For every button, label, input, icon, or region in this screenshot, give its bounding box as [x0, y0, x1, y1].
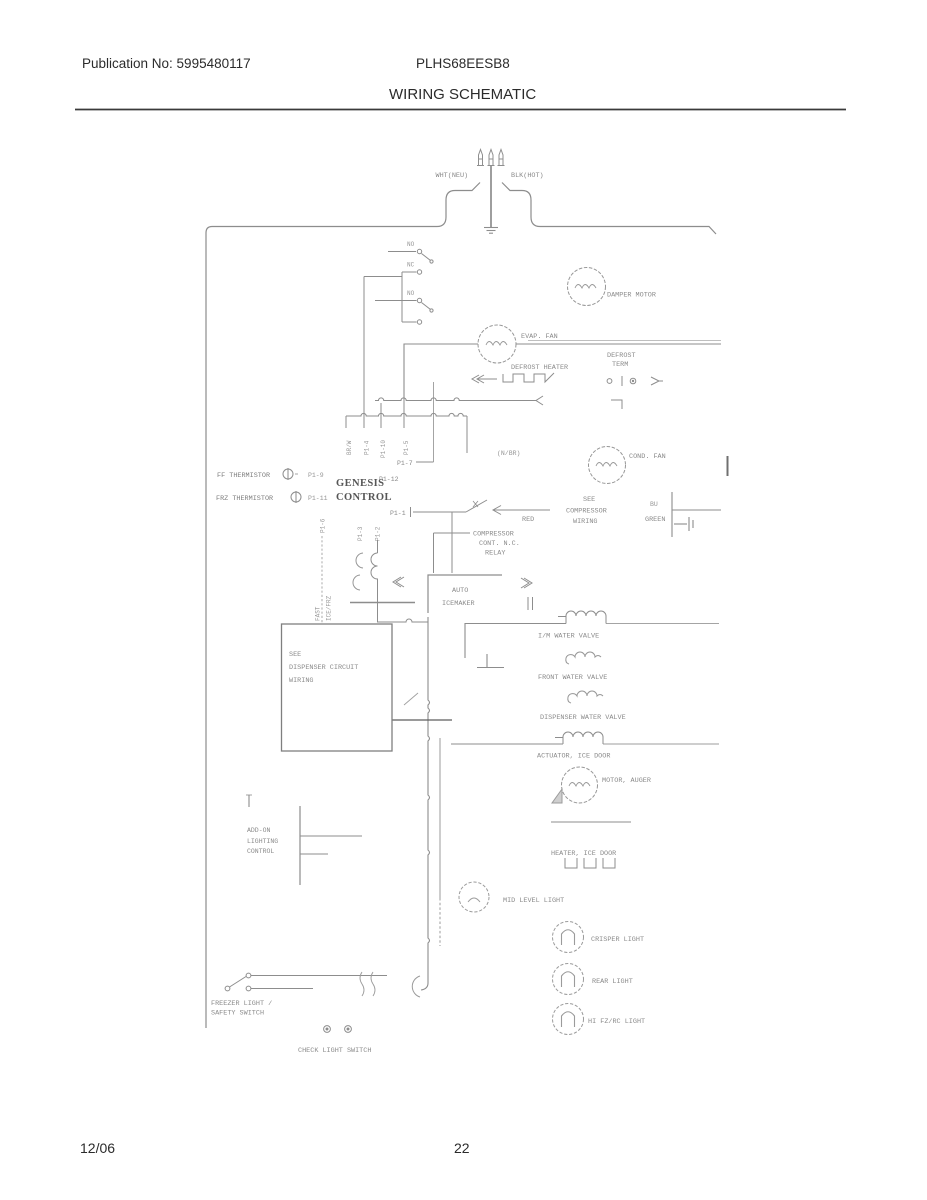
svg-text:ACTUATOR, ICE DOOR: ACTUATOR, ICE DOOR — [537, 753, 610, 761]
svg-text:FRONT WATER VALVE: FRONT WATER VALVE — [538, 674, 607, 682]
crisper light LP2 — [553, 922, 584, 953]
svg-text:NO: NO — [407, 241, 415, 248]
svg-text:FF THERMISTOR: FF THERMISTOR — [217, 472, 270, 480]
svg-text:COND. FAN: COND. FAN — [629, 453, 666, 461]
svg-text:BLK(HOT): BLK(HOT) — [511, 172, 544, 180]
svg-text:BU: BU — [650, 501, 658, 508]
svg-text:WHT(NEU): WHT(NEU) — [436, 172, 469, 180]
svg-text:P1-3: P1-3 — [357, 526, 364, 541]
freezer light safety switch S3 — [225, 973, 387, 991]
wire: RED lead with arrow — [493, 506, 550, 515]
solenoid coil: I/M water valve — [558, 611, 719, 624]
svg-text:ICE/FRZ: ICE/FRZ — [326, 595, 333, 621]
svg-text:FAST: FAST — [315, 606, 322, 621]
header publication number — [82, 56, 536, 103]
wire: connector pin stubs — [381, 344, 434, 462]
svg-text:NC: NC — [407, 262, 415, 269]
svg-text:REAR LIGHT: REAR LIGHT — [592, 978, 633, 986]
wire: green ground branch — [672, 492, 721, 537]
svg-text:Publication No: 5995480117: Publication No: 5995480117 — [82, 56, 251, 71]
svg-text:I/M WATER VALVE: I/M WATER VALVE — [538, 633, 599, 641]
svg-text:FRZ THERMISTOR: FRZ THERMISTOR — [216, 495, 273, 503]
svg-text:P1-7: P1-7 — [397, 460, 413, 467]
wire: coil output to icemaker — [378, 603, 429, 623]
add-on lighting control bus — [300, 806, 362, 885]
hi fz light LP4 — [553, 1004, 584, 1035]
svg-text:EVAP. FAN: EVAP. FAN — [521, 333, 558, 341]
svg-text:P1-2: P1-2 — [375, 526, 382, 541]
damper motor M1 — [568, 268, 606, 306]
svg-text:SAFETY SWITCH: SAFETY SWITCH — [211, 1010, 264, 1018]
wire: icemaker main drop — [421, 617, 430, 990]
svg-text:TERM: TERM — [612, 361, 628, 369]
label FAST / ICE-FRZ riser — [321, 536, 323, 623]
svg-text:CONTROL: CONTROL — [336, 492, 392, 503]
svg-text:P1-6: P1-6 — [320, 518, 327, 533]
wire: valve feed elbow with ground — [465, 624, 566, 659]
footer date — [80, 1140, 470, 1156]
svg-text:P1-1: P1-1 — [390, 510, 406, 517]
svg-text:COMPRESSOR: COMPRESSOR — [473, 531, 514, 539]
svg-text:12/06: 12/06 — [80, 1140, 115, 1156]
svg-text:MID LEVEL LIGHT: MID LEVEL LIGHT — [503, 897, 564, 905]
connector row P1 upper — [375, 396, 543, 405]
svg-text:DISPENSER WATER VALVE: DISPENSER WATER VALVE — [540, 714, 626, 722]
svg-text:P1-11: P1-11 — [308, 495, 328, 502]
svg-text:LIGHTING: LIGHTING — [247, 838, 278, 845]
wire: top border right run from power entry hump with corner hook — [502, 183, 716, 235]
heater element R2 ice door — [565, 858, 615, 868]
condenser fan motor M3 — [589, 447, 626, 484]
wedge at auger motor — [552, 789, 562, 803]
svg-text:NO: NO — [407, 290, 415, 297]
wire: crossing squiggles on switch line — [360, 972, 375, 996]
wire: neutral run right of evap fan (double line) — [516, 341, 721, 345]
label DEFROST TERM — [607, 352, 636, 369]
wire: top border left run to power entry hump — [212, 183, 480, 227]
svg-text:22: 22 — [454, 1140, 470, 1156]
wire: left feed down from switch group — [364, 277, 402, 429]
contact ticks icemaker — [528, 597, 533, 610]
header rule line — [75, 109, 846, 111]
svg-text:RED: RED — [522, 516, 534, 524]
svg-text:P1-9: P1-9 — [308, 472, 324, 479]
mid level light LP1 — [459, 882, 489, 912]
svg-text:P1-10: P1-10 — [380, 440, 387, 458]
svg-text:WIRING: WIRING — [289, 677, 313, 685]
svg-text:SEE: SEE — [583, 496, 595, 504]
check light switch S4 — [324, 1026, 352, 1033]
svg-text:CRISPER LIGHT: CRISPER LIGHT — [591, 936, 644, 944]
svg-text:RELAY: RELAY — [485, 550, 505, 558]
svg-text:SEE: SEE — [289, 651, 301, 659]
switch S2 three-contact group — [375, 270, 433, 324]
label SEE DISPENSER CIRCUIT WIRING — [289, 651, 358, 685]
switch S1 upper (NO) — [388, 249, 433, 263]
defrost heater element R1 — [472, 373, 554, 383]
svg-text:WIRING: WIRING — [573, 518, 597, 526]
svg-text:HI FZ/RC LIGHT: HI FZ/RC LIGHT — [588, 1018, 645, 1026]
ground below valve feed — [477, 654, 504, 668]
wire: dispenser box stub (dark) — [392, 719, 452, 721]
wire: stub below defrost term — [466, 416, 468, 453]
compressor control relay K1 contact — [411, 500, 488, 517]
wire: diagonal jog above stub — [404, 693, 418, 705]
wire: drop to mid level light — [439, 738, 441, 946]
coil L2 (right solenoid with wire) — [371, 540, 378, 602]
svg-text:CHECK LIGHT SWITCH: CHECK LIGHT SWITCH — [298, 1047, 371, 1055]
coil L1 (left solenoid arcs) — [353, 553, 363, 590]
solenoid coil: dispenser water valve — [568, 691, 603, 703]
svg-text:DEFROST: DEFROST — [607, 352, 636, 360]
rear light LP3 — [553, 964, 584, 995]
label ADD-ON LIGHTING CONTROL — [247, 827, 278, 855]
label GENESIS CONTROL — [336, 478, 392, 503]
svg-text:(N/BR): (N/BR) — [497, 450, 520, 457]
connector row P1 lower — [346, 413, 467, 453]
solenoid coil: actuator ice door — [451, 732, 719, 744]
svg-text:CONT. N.C.: CONT. N.C. — [479, 540, 520, 548]
arrow marker left pair — [393, 577, 404, 587]
svg-text:GREEN: GREEN — [645, 516, 665, 524]
arrow marker right pair — [521, 578, 532, 588]
wire: heater branch line — [551, 821, 631, 823]
svg-text:DISPENSER CIRCUIT: DISPENSER CIRCUIT — [289, 664, 358, 672]
wire: power cord — [490, 166, 492, 227]
auto icemaker bracket — [428, 575, 502, 613]
label AUTO ICEMAKER — [442, 587, 475, 608]
label SEE COMPRESSOR WIRING — [566, 496, 607, 526]
wire: relay verticals to icemaker — [434, 512, 471, 573]
wire: evap fan feed corner — [404, 344, 478, 399]
svg-text:CONTROL: CONTROL — [247, 848, 274, 855]
label COMPRESSOR CONTROL RELAY — [473, 531, 520, 558]
svg-text:BR/W: BR/W — [346, 440, 353, 455]
dispenser circuit box — [282, 624, 393, 751]
svg-text:WIRING SCHEMATIC: WIRING SCHEMATIC — [389, 86, 536, 103]
auger motor M4 — [562, 767, 598, 803]
svg-text:P1-4: P1-4 — [364, 440, 371, 455]
evap fan motor M2 — [478, 325, 516, 363]
ground on green wire — [674, 517, 693, 531]
wire: right border segment — [727, 456, 729, 476]
wire: bus bar under coils — [350, 602, 415, 604]
add-on lighting tick — [246, 795, 252, 807]
ground at plug — [484, 228, 498, 234]
svg-text:COMPRESSOR: COMPRESSOR — [566, 508, 607, 516]
svg-text:GENESIS: GENESIS — [336, 478, 384, 489]
svg-text:ADD-ON: ADD-ON — [247, 827, 271, 834]
svg-text:DEFROST HEATER: DEFROST HEATER — [511, 364, 568, 372]
solenoid coil: front water valve — [566, 652, 601, 664]
wire: outer border left side with rounded top-left corner — [206, 227, 212, 1029]
label FREEZER LIGHT / SAFETY SWITCH — [211, 1000, 272, 1018]
svg-text:AUTO: AUTO — [452, 587, 468, 595]
svg-text:MOTOR, AUGER: MOTOR, AUGER — [602, 777, 651, 785]
defrost terminator thermostat — [607, 376, 663, 409]
svg-text:HEATER, ICE DOOR: HEATER, ICE DOOR — [551, 850, 616, 858]
svg-text:P1-5: P1-5 — [403, 440, 410, 455]
svg-text:DAMPER MOTOR: DAMPER MOTOR — [607, 292, 656, 300]
svg-text:PLHS68EESB8: PLHS68EESB8 — [416, 56, 510, 71]
power plug blades — [477, 150, 505, 166]
wire: hook at main drop bottom — [412, 976, 420, 997]
svg-text:ICEMAKER: ICEMAKER — [442, 600, 475, 608]
svg-text:FREEZER LIGHT /: FREEZER LIGHT / — [211, 1000, 272, 1008]
